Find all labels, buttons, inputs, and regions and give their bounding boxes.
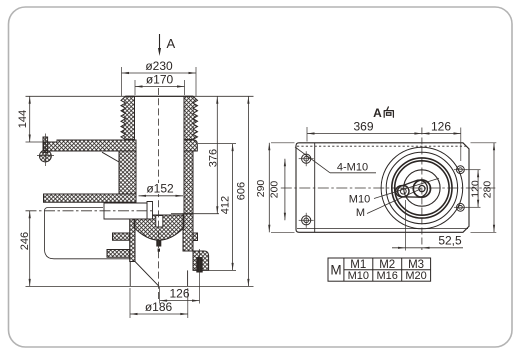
vertical centreline <box>158 88 160 302</box>
ext line 412 top <box>198 143 236 145</box>
bolt ext to 126 dim <box>199 279 201 304</box>
dim o170 <box>135 86 185 88</box>
centre slot hole <box>396 180 428 197</box>
svg-text:606: 606 <box>236 182 248 200</box>
socket axis centreline <box>26 210 153 212</box>
slot small circle <box>398 186 409 197</box>
flange circle 3 <box>392 158 452 218</box>
flange circle 4 <box>395 161 449 215</box>
svg-text:M2: M2 <box>379 259 395 271</box>
dim 52,5 <box>392 247 463 249</box>
right flange (section) <box>193 251 209 270</box>
inner line bottom <box>297 228 468 230</box>
svg-text:M1: M1 <box>350 259 366 271</box>
conductor arm (section) <box>44 140 137 151</box>
dim o230 <box>122 72 197 74</box>
terminal stud <box>43 137 48 153</box>
svg-text:M10: M10 <box>348 270 369 282</box>
dim 246 <box>29 211 31 287</box>
dim 120 <box>477 170 479 208</box>
dim 376 <box>216 96 218 213</box>
terminal ball <box>40 150 52 162</box>
dim 126 top <box>422 133 461 135</box>
conductor stud <box>156 216 163 228</box>
svg-text:246: 246 <box>19 232 31 250</box>
hole bottom-right <box>457 203 465 211</box>
horizontal centreline <box>281 187 496 189</box>
svg-text:120: 120 <box>470 180 482 198</box>
right wall upper step (section) <box>184 140 197 151</box>
dim 369 <box>307 133 422 135</box>
inner chamfer line <box>135 262 159 287</box>
top extension line <box>26 95 254 97</box>
leader 4-M10 <box>295 147 330 173</box>
right fin (section) <box>193 233 198 241</box>
dim 606 <box>247 96 249 286</box>
right lower tube wall line <box>187 270 189 286</box>
dim 126 bottom <box>160 300 200 302</box>
ext line 126 to hole <box>460 128 462 162</box>
hole bottom-left <box>302 216 311 225</box>
left tube wall with sheds (section) <box>121 96 135 139</box>
hole top-left <box>302 154 311 163</box>
svg-text:A: A <box>166 36 175 51</box>
xiang glyph (drawn) <box>384 107 393 117</box>
left lower tube wall line <box>129 262 131 287</box>
svg-text:M: M <box>356 207 365 219</box>
svg-text:369: 369 <box>353 120 373 134</box>
dome cap (section) <box>134 215 184 240</box>
flange outer circle <box>381 147 463 229</box>
vertical centreline of flange <box>421 128 423 251</box>
svg-text:ø152: ø152 <box>146 182 174 196</box>
right tube wall with sheds (section) <box>184 96 198 139</box>
dim 200 <box>284 159 286 221</box>
socket body <box>104 203 147 219</box>
svg-text:200: 200 <box>268 181 280 199</box>
socket shoulder <box>147 202 153 220</box>
svg-text:144: 144 <box>17 110 29 128</box>
gasket face line <box>171 213 219 215</box>
slot inner circle <box>419 186 425 192</box>
svg-text:4-M10: 4-M10 <box>337 162 368 174</box>
leader M <box>367 189 421 214</box>
terminal horizontal tick <box>37 155 54 157</box>
left fin lower (section) <box>107 250 130 258</box>
svg-text:126: 126 <box>169 287 189 301</box>
left body wall (section) <box>119 151 136 194</box>
dim o152 <box>139 195 184 197</box>
svg-text:M: M <box>330 263 341 278</box>
right body wall (section) <box>184 151 193 214</box>
section arrow A <box>159 34 161 52</box>
dim 280 <box>493 143 495 233</box>
hole top-right <box>457 166 465 174</box>
svg-text:ø170: ø170 <box>146 73 174 87</box>
centre ext to 126 dim <box>159 287 161 304</box>
svg-text:M16: M16 <box>376 270 397 282</box>
right lower wall (section) <box>183 214 193 251</box>
svg-text:52,5: 52,5 <box>438 234 462 248</box>
slot big circle <box>413 180 430 197</box>
flange circle 2 <box>386 152 457 223</box>
stud tip dot <box>158 249 160 252</box>
bolt centreline <box>199 249 201 279</box>
svg-text:M10: M10 <box>349 194 370 206</box>
cavity outline <box>45 208 131 259</box>
arm top extension <box>26 141 44 143</box>
left lower wall (section) <box>130 215 135 262</box>
leader M10 <box>374 178 439 198</box>
svg-text:280: 280 <box>482 181 494 199</box>
left boss band (section) <box>44 194 137 202</box>
svg-text:ø186: ø186 <box>145 300 173 314</box>
svg-text:M3: M3 <box>408 259 424 271</box>
hidden line top <box>297 145 468 147</box>
mounting plate outline <box>296 143 469 233</box>
svg-text:A: A <box>373 106 382 120</box>
left fin upper (section) <box>113 233 130 240</box>
svg-text:376: 376 <box>207 149 219 167</box>
gusset line <box>102 152 119 162</box>
bend line left <box>314 143 316 233</box>
flange inner circle <box>404 170 440 206</box>
dim 290 <box>268 143 270 233</box>
svg-text:126: 126 <box>431 120 451 134</box>
terminal centre tick <box>44 134 46 167</box>
tube top edge <box>126 95 194 97</box>
svg-text:412: 412 <box>219 196 231 214</box>
dim 412 <box>232 144 234 271</box>
svg-text:290: 290 <box>255 180 267 198</box>
slot small circle inner <box>400 188 406 194</box>
flange bolt <box>196 257 202 273</box>
ext line 412 bottom <box>209 269 236 271</box>
thread size table <box>328 258 431 281</box>
stud tip <box>156 240 161 247</box>
bottom edge / extension line <box>26 285 254 287</box>
svg-text:ø230: ø230 <box>145 59 173 73</box>
dim 144 <box>29 96 31 142</box>
svg-text:M20: M20 <box>405 270 426 282</box>
dim o186 <box>130 313 188 315</box>
